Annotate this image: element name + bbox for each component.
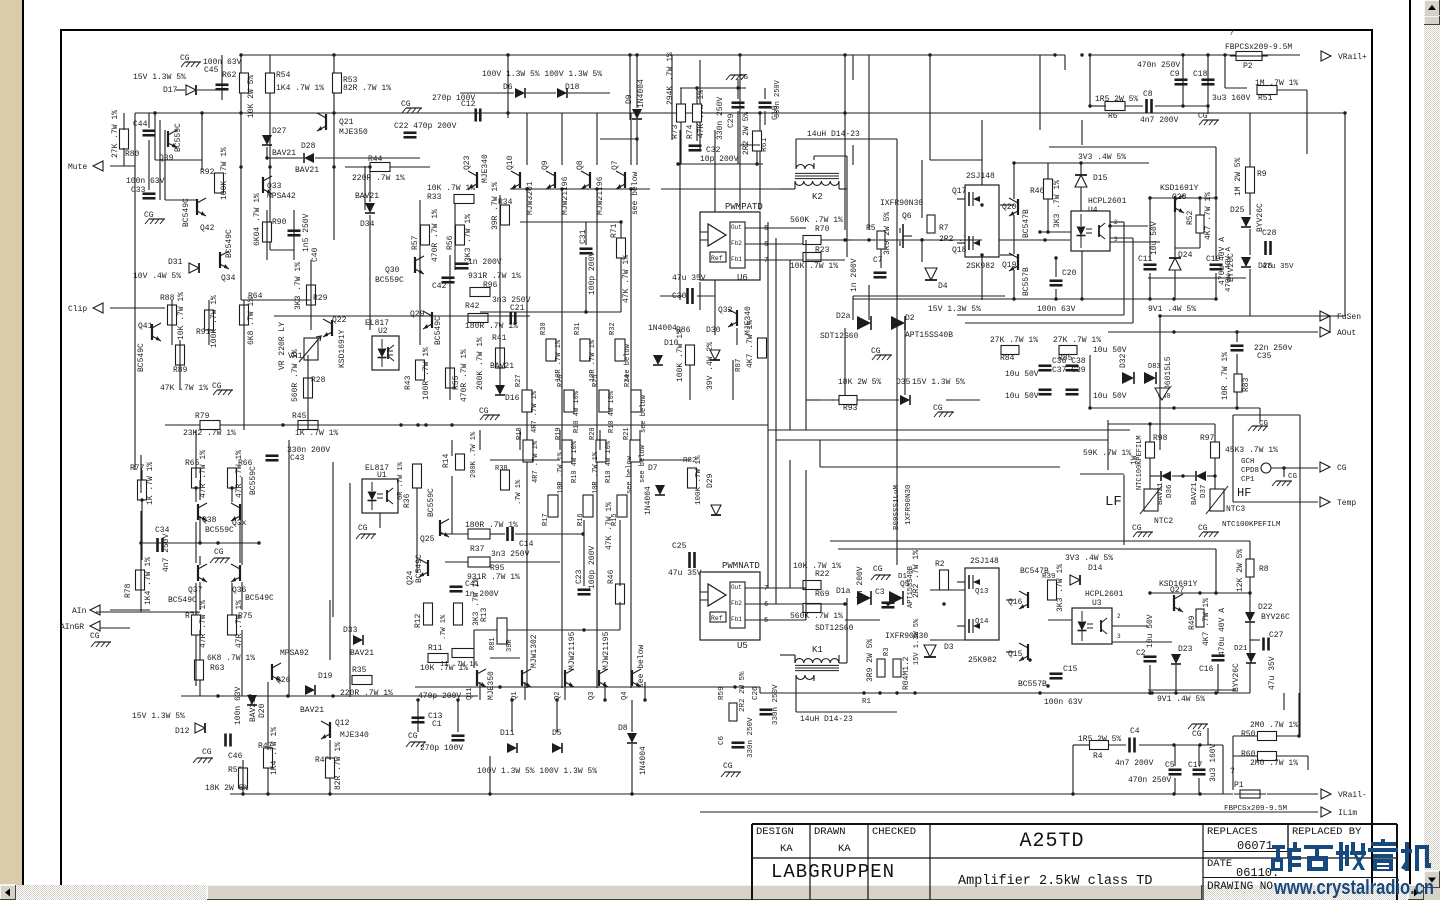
svg-text:R8: R8 [1259,565,1269,574]
svg-text:Q10: Q10 [506,155,515,170]
svg-text:MJE350: MJE350 [487,671,496,700]
svg-text:R4: R4 [1093,752,1103,761]
svg-text:1K .7W 1%: 1K .7W 1% [295,429,338,438]
svg-text:27K .7W 1%: 27K .7W 1% [111,110,120,158]
svg-text:PWMNATD: PWMNATD [722,561,760,571]
svg-text:C22 470p 200V: C22 470p 200V [394,122,457,131]
svg-text:R54: R54 [276,71,291,80]
svg-text:BAV21: BAV21 [300,706,324,715]
svg-text:CG: CG [202,748,212,757]
svg-text:39V .4W 2%: 39V .4W 2% [706,342,715,390]
svg-text:R40: R40 [1030,187,1045,196]
svg-text:100V 1.3W 5% 100V 1.3W 5%: 100V 1.3W 5% 100V 1.3W 5% [477,767,597,776]
svg-text:4R7 .7W 1%: 4R7 .7W 1% [531,390,539,433]
svg-text:D6: D6 [503,83,513,92]
svg-text:R24: R24 [624,374,632,387]
svg-text:BC549C: BC549C [434,316,443,345]
svg-text:R41: R41 [492,334,507,343]
svg-text:R81: R81 [489,637,497,650]
svg-text:2SJ148: 2SJ148 [966,172,995,181]
svg-text:R11: R11 [428,644,443,653]
svg-text:C43: C43 [290,454,305,463]
svg-text:27K .7W 1%: 27K .7W 1% [990,336,1038,345]
svg-text:R57: R57 [411,235,420,250]
svg-text:BC559C: BC559C [205,526,234,535]
svg-text:DRAWN: DRAWN [814,826,846,838]
svg-text:47u 35V: 47u 35V [672,274,706,283]
svg-text:Q19: Q19 [1002,261,1017,270]
svg-text:R13: R13 [480,607,489,622]
svg-text:MJE340: MJE340 [481,154,490,183]
svg-text:FBPCSx209-9.5M: FBPCSx209-9.5M [1225,43,1292,52]
svg-text:330n 250V: 330n 250V [774,79,782,118]
svg-text:47u 35V: 47u 35V [1268,656,1277,690]
svg-text:R52: R52 [1186,210,1195,225]
svg-text:FBPCSx209-9.5M: FBPCSx209-9.5M [1224,805,1288,813]
svg-text:LABGRUPPEN: LABGRUPPEN [771,861,895,883]
svg-text:100K .7W 1%: 100K .7W 1% [220,147,229,200]
svg-text:100V 1.3W 5% 100V 1.3W 5%: 100V 1.3W 5% 100V 1.3W 5% [482,70,602,79]
svg-text:D35: D35 [896,378,911,387]
svg-text:R35: R35 [352,666,367,675]
svg-text:BC549C: BC549C [137,343,146,372]
svg-text:R80: R80 [125,150,140,159]
svg-text:Q30: Q30 [385,266,400,275]
svg-text:R59: R59 [718,686,726,700]
svg-text:R44: R44 [368,155,383,164]
svg-text:10u 50V: 10u 50V [1146,614,1155,648]
svg-text:Q33: Q33 [267,182,282,191]
svg-text:1K4 .7W 1%: 1K4 .7W 1% [276,84,324,93]
svg-text:D14: D14 [1088,564,1103,573]
svg-text:D23: D23 [1178,645,1193,654]
svg-text:C28: C28 [1262,229,1277,238]
svg-text:47u 35V: 47u 35V [1262,263,1294,271]
svg-text:R65: R65 [185,459,200,468]
svg-text:6K8 .7W 1%: 6K8 .7W 1% [207,654,255,663]
svg-text:3V3 .4W 5%: 3V3 .4W 5% [1078,153,1126,162]
svg-text:C18: C18 [1193,70,1208,79]
svg-text:R49: R49 [1188,615,1197,630]
svg-text:CG: CG [739,74,749,82]
svg-text:10u 50V: 10u 50V [1093,392,1127,401]
svg-text:Q25: Q25 [420,535,435,544]
svg-text:CG: CG [873,565,883,574]
svg-text:R19: R19 [555,427,563,440]
svg-text:C3: C3 [875,588,885,597]
svg-text:15V 1.3W 5%: 15V 1.3W 5% [928,305,981,314]
svg-text:LF: LF [1105,494,1122,510]
svg-text:Q38: Q38 [202,516,217,525]
svg-text:100R .7W 1%: 100R .7W 1% [422,347,431,400]
svg-text:2SJ148: 2SJ148 [970,557,999,566]
svg-text:KSD1691Y: KSD1691Y [338,329,347,368]
svg-text:K1: K1 [812,645,823,655]
svg-text:BAV21: BAV21 [272,149,296,158]
svg-text:CG: CG [871,347,881,356]
svg-text:2: 2 [1117,613,1121,620]
svg-text:100K .7W 1%: 100K .7W 1% [695,455,703,505]
svg-text:C29: C29 [727,113,736,128]
svg-text:FuSen: FuSen [1337,313,1361,322]
svg-text:see below: see below [637,645,646,688]
svg-text:MJW21195: MJW21195 [568,631,577,670]
svg-text:Q42: Q42 [200,224,215,233]
svg-text:C23: C23 [575,569,584,584]
svg-text:BYV26C: BYV26C [1261,613,1290,622]
svg-text:Q3x: Q3x [232,519,247,528]
svg-text:U3: U3 [1092,599,1102,608]
svg-text:10u 50V: 10u 50V [1150,221,1159,255]
svg-text:15V 1.3W 5%: 15V 1.3W 5% [133,73,186,82]
svg-text:47u 35V: 47u 35V [668,569,702,578]
svg-text:100p 200V: 100p 200V [588,546,597,589]
svg-text:82R .7W 1%: 82R .7W 1% [334,742,343,790]
svg-text:CG: CG [933,404,943,413]
svg-text:CG: CG [723,762,733,771]
svg-text:220R .7W 1%: 220R .7W 1% [352,174,405,183]
svg-text:www.crystalradio.cn: www.crystalradio.cn [1273,877,1434,899]
svg-text:R62: R62 [222,71,237,80]
svg-text:R60: R60 [1241,750,1256,759]
svg-text:P2: P2 [1243,62,1253,71]
svg-text:K2: K2 [812,192,823,202]
svg-text:R46: R46 [607,569,616,584]
svg-text:Clip: Clip [68,305,87,314]
svg-text:IXFR90N30: IXFR90N30 [885,632,928,641]
svg-text:BAV21: BAV21 [1191,482,1199,505]
svg-text:6K04 .7W 1%: 6K04 .7W 1% [253,193,262,246]
svg-text:NTC3: NTC3 [1226,505,1245,514]
svg-text:R90: R90 [272,218,287,227]
svg-text:R29: R29 [313,294,328,303]
svg-text:15V 1.3W 5%: 15V 1.3W 5% [132,712,185,721]
svg-text:560K .7W 1%: 560K .7W 1% [790,216,843,225]
svg-text:R21: R21 [623,427,631,440]
svg-text:C12: C12 [461,100,476,109]
svg-text:NTC2: NTC2 [1154,517,1173,526]
svg-text:1K4 .7W 1%: 1K4 .7W 1% [270,727,279,775]
svg-text:BC557B: BC557B [1022,267,1031,296]
svg-text:3V3 .4W 5%: 3V3 .4W 5% [1065,554,1113,563]
svg-text:CG: CG [479,407,489,416]
svg-text:D4: D4 [938,282,948,291]
svg-text:47R .7W 1%: 47R .7W 1% [235,600,244,648]
svg-text:CG: CG [180,54,190,63]
svg-text:R9: R9 [1257,170,1267,179]
svg-text:330n 250V: 330n 250V [747,717,755,758]
svg-text:1n 200V: 1n 200V [850,258,859,292]
svg-text:3K3 .7W 1%: 3K3 .7W 1% [464,214,473,262]
svg-text:SDT12S60: SDT12S60 [820,332,859,341]
svg-text:931R .7W 1%: 931R .7W 1% [468,272,521,281]
svg-text:C27: C27 [1269,631,1284,640]
svg-text:R04M1.2: R04M1.2 [902,656,911,690]
svg-text:U6: U6 [737,273,748,283]
svg-text:U5: U5 [737,641,748,651]
svg-text:CG: CG [1198,524,1208,533]
svg-text:10R .7W 1%: 10R .7W 1% [557,451,565,494]
svg-text:Q6015L5: Q6015L5 [1164,356,1173,390]
svg-text:6: 6 [764,601,768,609]
svg-text:CG: CG [408,732,418,741]
svg-text:R22: R22 [815,570,830,579]
svg-text:10p 200V: 10p 200V [700,155,739,164]
svg-text:D18: D18 [565,83,580,92]
svg-text:470n 250V: 470n 250V [1128,776,1171,785]
svg-text:1M 2W 5%: 1M 2W 5% [1234,157,1243,196]
svg-text:1N4004: 1N4004 [639,746,648,775]
svg-text:1n5 250V: 1n5 250V [302,213,311,252]
svg-text:BC547B: BC547B [1022,209,1031,238]
svg-text:100n 63V: 100n 63V [126,177,165,186]
svg-text:Q18: Q18 [952,246,967,255]
svg-text:D34: D34 [360,220,375,229]
svg-text:10K .7W 1%: 10K .7W 1% [177,292,186,340]
svg-text:47K .7W 1%: 47K .7W 1% [605,502,614,550]
svg-text:D7: D7 [648,464,658,473]
svg-text:R42: R42 [465,302,480,311]
svg-text:BC549C: BC549C [182,198,191,227]
svg-text:0R .7W 1%: 0R .7W 1% [397,461,405,500]
svg-text:4n7 200V: 4n7 200V [1140,116,1179,125]
svg-text:Q34: Q34 [221,274,236,283]
svg-text:R5: R5 [866,224,876,233]
svg-text:D30: D30 [706,326,721,335]
svg-text:9V1 .4W 5%: 9V1 .4W 5% [1157,695,1205,704]
svg-text:470R .7W 1%: 470R .7W 1% [460,349,469,402]
svg-text:C26: C26 [752,686,760,700]
svg-text:10R .7W 1%: 10R .7W 1% [1221,352,1230,400]
svg-text:R37: R37 [470,545,485,554]
svg-text:1XFR90N30: 1XFR90N30 [905,484,913,525]
svg-text:see below: see below [639,444,647,483]
svg-text:REPLACED BY: REPLACED BY [1292,826,1362,838]
svg-text:470u 40V A: 470u 40V A [1218,608,1227,656]
svg-text:R70: R70 [815,225,830,234]
svg-text:R10 4W 10%: R10 4W 10% [605,440,613,483]
svg-text:Q41: Q41 [138,322,153,331]
svg-text:D24: D24 [1178,251,1193,260]
svg-text:BC559C: BC559C [375,276,404,285]
svg-text:ILim: ILim [1338,809,1357,818]
svg-text:BC549C: BC549C [245,594,274,603]
svg-text:4R7 .7W 1%: 4R7 .7W 1% [532,440,540,483]
svg-text:220R .7W 1%: 220R .7W 1% [340,689,393,698]
svg-text:D36: D36 [1166,484,1174,498]
svg-text:C32: C32 [706,146,721,155]
svg-text:R12: R12 [414,613,423,628]
svg-text:560K .7W 1%: 560K .7W 1% [790,612,843,621]
svg-text:D22: D22 [1258,603,1273,612]
svg-text:10K .7W 1%: 10K .7W 1% [790,262,838,271]
svg-text:1N4004: 1N4004 [648,324,677,333]
svg-text:R50: R50 [1241,730,1256,739]
svg-text:D2a: D2a [836,312,851,321]
svg-text:Ref: Ref [711,255,723,262]
svg-text:Q20: Q20 [1002,203,1017,212]
svg-text:R3: R3 [883,648,891,656]
svg-text:C45: C45 [204,66,219,75]
svg-text:CG: CG [1132,524,1142,533]
svg-text:CPD8: CPD8 [1241,467,1259,475]
svg-text:C20: C20 [1062,269,1077,278]
svg-text:Fb2: Fb2 [731,600,742,607]
svg-text:C7: C7 [873,256,883,265]
svg-text:D8: D8 [618,724,628,733]
svg-text:D19: D19 [318,672,333,681]
svg-text:R33: R33 [427,193,442,202]
svg-text:HCPL2601: HCPL2601 [1088,197,1127,206]
svg-text:GCH: GCH [1241,458,1255,466]
svg-text:R32: R32 [609,322,617,335]
svg-text:59K .7W 1%: 59K .7W 1% [1083,449,1131,458]
svg-text:D83: D83 [1148,363,1161,371]
svg-text:D27: D27 [272,127,287,136]
svg-text:MJE340: MJE340 [340,731,369,740]
svg-text:?: ? [1229,29,1234,38]
svg-text:200K .7W 1%: 200K .7W 1% [476,337,485,390]
svg-text:D16: D16 [505,394,520,403]
svg-text:C40: C40 [311,247,320,262]
svg-text:Q13: Q13 [975,588,989,596]
svg-text:2SK982: 2SK982 [966,262,995,271]
svg-text:Q3: Q3 [588,692,596,700]
svg-text:Q16: Q16 [1008,598,1023,607]
svg-text:R73: R73 [671,124,680,139]
svg-text:R43: R43 [404,375,413,390]
svg-text:1N4004: 1N4004 [644,486,653,515]
svg-text:3K3 .7W 1%: 3K3 .7W 1% [1053,180,1062,228]
svg-text:18K 2W 5%: 18K 2W 5% [205,784,248,793]
svg-text:MJW21195: MJW21195 [602,631,611,670]
svg-text:R51: R51 [1258,94,1273,103]
svg-text:C14: C14 [519,540,534,549]
svg-text:BC549C: BC549C [168,596,197,605]
svg-text:R6: R6 [1108,112,1118,121]
svg-text:27K .7W 1%: 27K .7W 1% [1053,336,1101,345]
svg-text:CG: CG [1259,420,1269,428]
svg-text:Q9: Q9 [541,160,550,170]
svg-text:Q22: Q22 [332,316,347,325]
svg-text:Q29: Q29 [410,310,425,319]
svg-text:Q11: Q11 [466,687,474,700]
svg-text:APT15SS40B: APT15SS40B [907,566,915,608]
svg-text:10u 50V: 10u 50V [1005,370,1039,379]
svg-text:R27: R27 [515,374,523,387]
svg-text:A25TD: A25TD [1019,830,1084,853]
svg-text:PWMPATD: PWMPATD [725,202,763,212]
svg-text:R95: R95 [490,564,505,573]
svg-text:KSD1691Y: KSD1691Y [1160,184,1199,193]
svg-text:CG: CG [1198,112,1208,121]
svg-text:330n 250V: 330n 250V [772,684,780,725]
svg-text:BYV26C: BYV26C [1256,203,1265,232]
svg-text:R2: R2 [935,560,945,569]
svg-text:4n7 200V: 4n7 200V [1115,759,1154,768]
svg-text:CG: CG [212,382,222,391]
svg-text:see below: see below [640,394,648,433]
svg-text:Q4: Q4 [621,692,629,700]
svg-text:MJW1302: MJW1302 [530,634,539,668]
svg-text:R63: R63 [210,664,225,673]
svg-text:4n7 250V: 4n7 250V [162,533,171,572]
svg-text:R34: R34 [498,198,513,207]
svg-text:3u3 160V: 3u3 160V [1212,94,1251,103]
svg-text:470n 250V: 470n 250V [1137,61,1180,70]
svg-text:CG: CG [1192,730,1202,739]
svg-text:2R2 2W 5%: 2R2 2W 5% [742,112,751,155]
svg-text:MPSA42: MPSA42 [267,192,296,201]
svg-text:BAV21: BAV21 [490,362,514,371]
svg-text:C25: C25 [672,542,687,551]
svg-text:Q15: Q15 [1008,650,1023,659]
svg-text:D12: D12 [175,727,190,736]
svg-text:U2: U2 [378,327,388,336]
svg-text:82R .7W 1%: 82R .7W 1% [343,84,391,93]
svg-text:BYV26C: BYV26C [1232,663,1241,692]
svg-text:Q12: Q12 [335,719,350,728]
svg-text:MPSA92: MPSA92 [280,649,309,658]
svg-text:14uH D14-23: 14uH D14-23 [807,130,860,139]
svg-text:C16: C16 [1199,665,1214,674]
svg-text:see below: see below [631,172,640,215]
svg-text:R78: R78 [124,583,133,598]
svg-text:3n3 250V: 3n3 250V [491,550,530,559]
svg-text:D31: D31 [168,258,183,267]
svg-text:25K982: 25K982 [968,656,997,665]
svg-text:D9: D9 [625,94,634,104]
svg-text:3: 3 [1117,633,1121,640]
svg-text:VRail+: VRail+ [1338,53,1367,62]
svg-text:10K 2W 5%: 10K 2W 5% [247,75,256,118]
svg-text:Q17: Q17 [952,187,967,196]
svg-text:C1: C1 [432,720,442,729]
svg-text:D21: D21 [1234,645,1248,653]
svg-text:BC549C: BC549C [415,554,424,583]
svg-text:R7: R7 [939,224,949,233]
svg-text:?: ? [1230,767,1235,776]
svg-text:3K3 .7W 1%: 3K3 .7W 1% [294,262,303,310]
svg-text:CP1: CP1 [1241,476,1255,484]
svg-text:R10 4W 10%: R10 4W 10% [573,390,581,433]
svg-text:R86: R86 [676,326,691,335]
svg-text:IXFR90N30: IXFR90N30 [880,199,923,208]
svg-text:Q7: Q7 [611,160,620,170]
svg-text:C31: C31 [579,229,588,244]
svg-text:C6: C6 [718,735,726,745]
svg-text:Fb1: Fb1 [731,616,742,623]
svg-text:3R9 2W 5%: 3R9 2W 5% [866,639,875,682]
svg-text:R84: R84 [1000,354,1015,363]
svg-text:CG: CG [144,211,154,220]
svg-text:BC559C: BC559C [174,123,183,152]
svg-text:CHECKED: CHECKED [872,826,916,838]
svg-text:HF: HF [1237,486,1251,500]
svg-text:10R .7W 1%: 10R .7W 1% [592,451,600,494]
svg-text:5: 5 [764,617,768,625]
svg-text:Q27: Q27 [1170,586,1185,595]
svg-text:11 .7W 1%: 11 .7W 1% [440,661,479,669]
svg-text:R25: R25 [592,374,600,387]
svg-text:CG: CG [1288,473,1298,481]
svg-text:R87: R87 [735,358,743,372]
svg-text:1n 200V: 1n 200V [465,590,499,599]
svg-text:100n 63V: 100n 63V [1044,698,1083,707]
svg-text:BAV21: BAV21 [295,166,319,175]
svg-text:.7W 1%: .7W 1% [515,479,523,505]
svg-text:see below: see below [626,455,634,494]
